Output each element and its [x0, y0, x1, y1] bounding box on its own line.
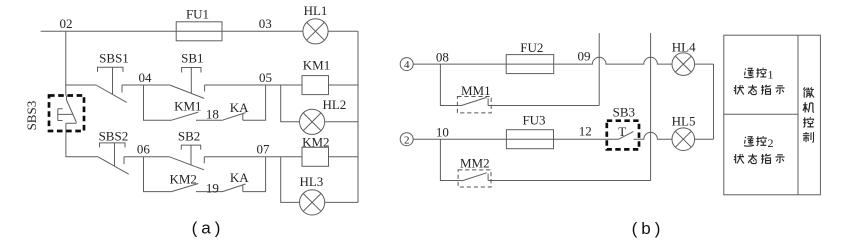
wire: node 08 drop	[440, 64, 461, 105]
svg-text:FU3: FU3	[522, 113, 545, 128]
wire: SB3 out with crossover hump	[634, 132, 673, 139]
wire: node 10 drop	[440, 139, 461, 180]
lamp HL1	[303, 19, 328, 44]
svg-text:09: 09	[578, 48, 591, 63]
svg-text:MM1: MM1	[461, 83, 491, 98]
text 状态指示 (status indication) row1	[734, 85, 785, 95]
svg-text:KM2: KM2	[169, 172, 196, 187]
svg-text:19: 19	[206, 180, 219, 195]
wire: node 02 drop to SBS3	[65, 31, 67, 95]
svg-text:SB2: SB2	[178, 128, 200, 143]
wire: KM2 to rail	[329, 156, 359, 158]
wire: (b) row1 from terminal 4 to FU2	[413, 63, 506, 65]
wire: vertical B (to remote control)	[650, 33, 652, 181]
svg-text:HL1: HL1	[304, 3, 328, 18]
fuse FU1	[176, 22, 222, 41]
wire: HL5 to right connector	[695, 138, 714, 140]
wire: HL2 branch	[281, 85, 300, 122]
wire: node 04 drop	[144, 85, 172, 120]
svg-text:05: 05	[259, 70, 272, 85]
wire: 12 segment into SB3	[554, 138, 619, 140]
svg-text:KM1: KM1	[303, 57, 330, 72]
wire: right vertical rail	[357, 31, 359, 202]
svg-text:06: 06	[137, 142, 151, 157]
labels circuit (b)	[404, 40, 696, 171]
coil KM1	[302, 76, 329, 95]
svg-text:4: 4	[404, 59, 410, 71]
wire: MM1 branch to vertical A	[488, 105, 599, 107]
wire: (a) top bus 02-03	[41, 30, 303, 32]
lamp HL4	[672, 53, 695, 76]
coil KM2	[302, 147, 329, 166]
wire: SBS3 lower lead to SBS2 row	[66, 131, 98, 157]
selector box SBS3 (dashed)	[49, 96, 84, 132]
pushbutton SB1 (NC)	[170, 68, 205, 99]
wire: HL1 to right rail	[328, 30, 358, 32]
wire: right connector vertical	[713, 64, 715, 139]
svg-text:SBS3: SBS3	[24, 101, 39, 131]
svg-text:T: T	[618, 124, 626, 139]
svg-text:SB3: SB3	[613, 105, 635, 120]
text 状态指示 (status indication) row2	[734, 154, 785, 164]
svg-text:FU1: FU1	[186, 6, 209, 21]
text 遥控1 (remote 1)	[744, 67, 774, 81]
wire: branch up to node 05	[243, 85, 266, 120]
pushbutton SB2 (NC)	[169, 145, 204, 170]
lamp HL3	[300, 190, 325, 215]
breaker box MM1 (dashed)	[457, 97, 491, 113]
svg-text:2: 2	[404, 134, 410, 146]
button box SB3 (dashed)	[607, 121, 639, 150]
fuse FU2	[506, 55, 554, 74]
wire: 05 segment	[205, 84, 302, 86]
svg-text:HL4: HL4	[672, 40, 696, 55]
labels circuit (a)	[24, 3, 346, 195]
wire: (b) row2 from terminal 2 to FU3	[413, 138, 506, 140]
switch SBS3 internals	[58, 96, 77, 132]
svg-text:HL3: HL3	[299, 174, 323, 189]
contact KM2 (NO, self-hold)	[172, 184, 199, 192]
wire: vertical A (to remote control)	[598, 33, 600, 106]
wire: 04 segment	[122, 84, 170, 86]
wire: 09 segment with crossover humps	[554, 57, 672, 64]
svg-text:FU2: FU2	[520, 40, 543, 55]
contact KA (lower)	[223, 184, 246, 192]
contact MM1 (NO)	[461, 97, 488, 105]
svg-text:SBS1: SBS1	[99, 51, 129, 66]
contact KA (upper)	[223, 113, 246, 121]
wire: KM1 to rail	[329, 84, 359, 86]
pushbutton SBS1 (NC)	[96, 67, 127, 102]
svg-text:SB1: SB1	[181, 51, 203, 66]
wire: 06 segment	[124, 156, 169, 158]
contact MM2 (NO)	[462, 173, 489, 181]
node 4 (circled terminal)	[400, 58, 413, 71]
svg-text:KM1: KM1	[174, 99, 201, 114]
node 2 (circled terminal)	[400, 133, 413, 146]
wire: MM2 branch to vertical B	[488, 180, 650, 182]
wire: branch to SBS1 row	[66, 84, 96, 86]
svg-text:SBS2: SBS2	[99, 128, 129, 143]
pushbutton SBS2 (NC)	[98, 143, 129, 174]
svg-text:1: 1	[768, 67, 774, 81]
text 微机控制 (microcomputer control, vertical)	[803, 87, 814, 142]
wire: node 18 segment	[196, 119, 223, 121]
wire: HL3 branch	[281, 157, 300, 203]
fuse FU3	[506, 130, 553, 149]
svg-text:KM2: KM2	[302, 135, 329, 150]
wire: HL4 to right connector	[695, 63, 714, 65]
svg-text:HL5: HL5	[672, 114, 696, 129]
svg-text:(b): (b)	[632, 219, 665, 238]
svg-text:02: 02	[60, 16, 73, 31]
svg-text:03: 03	[259, 16, 272, 31]
lamp HL2	[300, 109, 325, 134]
wire: HL2 to rail	[325, 121, 358, 123]
pushbutton SB3 (NO, test)	[619, 132, 634, 140]
svg-text:(a): (a)	[192, 219, 225, 238]
breaker box MM2 (dashed)	[458, 170, 491, 187]
svg-text:KA: KA	[230, 100, 249, 115]
wire: HL3 to rail	[325, 201, 358, 203]
svg-text:18: 18	[206, 107, 219, 122]
svg-text:12: 12	[579, 123, 592, 138]
svg-text:MM2: MM2	[460, 155, 490, 170]
wire: node 19 segment	[196, 191, 223, 193]
contact KM1 (NO, self-hold)	[172, 112, 199, 120]
svg-text:KA: KA	[230, 170, 249, 185]
text 遥控2 (remote 2)	[744, 136, 774, 150]
wire: node 06 drop	[144, 157, 172, 192]
svg-text:HL2: HL2	[322, 97, 346, 112]
control panel box	[724, 35, 821, 195]
svg-text:04: 04	[139, 70, 153, 85]
svg-text:07: 07	[257, 142, 271, 157]
svg-text:10: 10	[436, 125, 449, 140]
wire: 07 segment	[204, 156, 302, 158]
svg-text:2: 2	[768, 136, 774, 150]
lamp HL5	[672, 128, 695, 151]
wire: branch up to node 07	[243, 157, 266, 192]
svg-text:08: 08	[436, 49, 449, 64]
